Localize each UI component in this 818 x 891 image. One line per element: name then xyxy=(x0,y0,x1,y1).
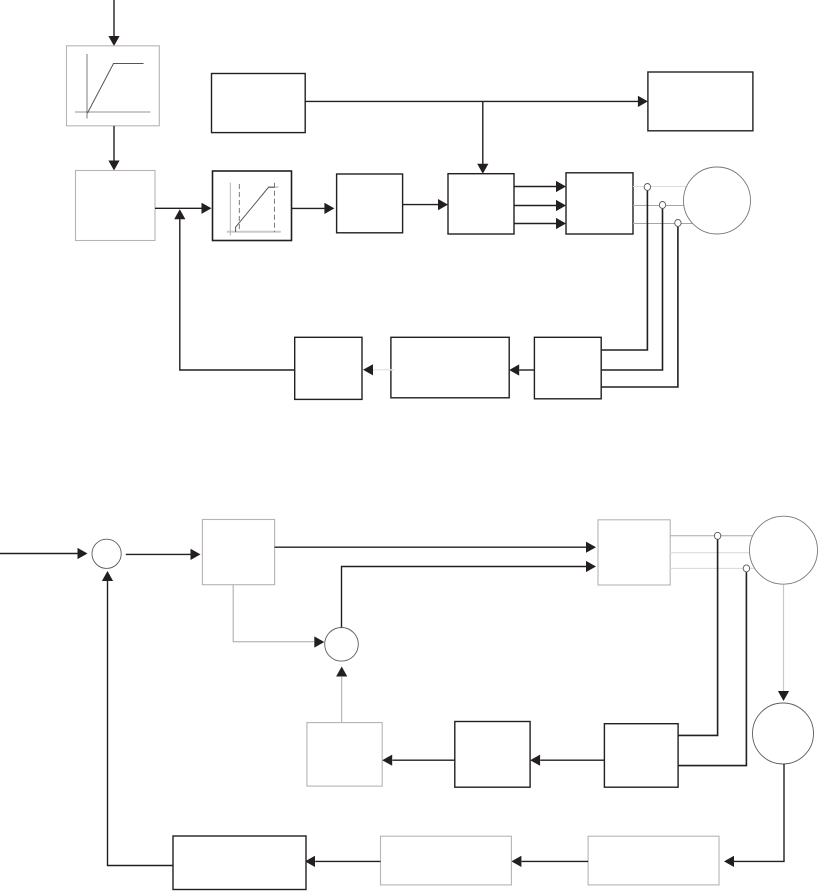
block: B16 (grey, bottom right) xyxy=(588,836,719,885)
wire: motor phase V xyxy=(633,205,684,207)
wire: B13 to B12 xyxy=(530,755,604,766)
wire: measurement to evaluation xyxy=(509,364,534,375)
wire: sense line from lead-1 terminal down to block B13 xyxy=(678,540,718,736)
wire: B15 to B14 xyxy=(305,856,381,867)
wire: current sense 1 down to measurement block xyxy=(601,191,647,350)
wire: B16 to B15 xyxy=(511,856,588,867)
wire: speed controller to current controller xyxy=(403,199,448,210)
wire: reference input arrow (bottom diagram) xyxy=(0,548,88,559)
block: compensation (grey, feeds S2) xyxy=(307,723,382,787)
wire: gate signal 3 xyxy=(514,218,566,229)
summing junction S1 xyxy=(92,539,121,568)
wire: current sense 3 down to measurement block xyxy=(601,227,678,387)
wire: compensation block up to S2 (grey with black head) xyxy=(336,667,347,723)
wire: S1 to controller xyxy=(126,549,201,560)
wire: B12 to compensation block xyxy=(382,755,455,766)
block: top-right auxiliary block xyxy=(648,72,753,131)
block: current controller / modulator xyxy=(448,174,514,234)
block: drive / power converter (bottom diagram) xyxy=(598,520,670,585)
wire: motor phase U xyxy=(633,186,687,188)
block: ramp limiter with saturation-curve icon xyxy=(67,46,160,126)
wire: feedback path up to summing junction on setpoint line xyxy=(174,209,295,370)
motor M1 xyxy=(684,167,751,234)
block: measurement B13 xyxy=(604,724,678,788)
wire: tachometer down and left to block B16 xyxy=(724,764,784,867)
block: evaluation (wide) xyxy=(391,337,509,398)
summing junction S2 xyxy=(325,628,359,662)
block: slope limiter with ramp icon xyxy=(213,171,292,241)
terminal node on phase U xyxy=(644,184,650,191)
terminal node on phase W xyxy=(675,220,681,227)
wire: main feedback from B14 up to summing junction S1 xyxy=(102,571,173,866)
wire: input arrow into ramp block xyxy=(108,0,119,46)
wire: evaluation to feedback block (grey with black head) xyxy=(363,364,394,375)
block: speed controller xyxy=(337,174,403,233)
wire: gate signal 1 xyxy=(514,181,566,192)
wire: slope limiter to speed controller block xyxy=(292,203,335,214)
wire: setpoint block to slope limiter xyxy=(155,203,212,214)
wire: motor lead 3 (bottom) xyxy=(670,567,755,569)
wire: motor phase W xyxy=(633,223,693,225)
wire: current sense 2 down to measurement block xyxy=(601,209,662,370)
wire: motor lead 2 (bottom) xyxy=(670,552,750,554)
block: controller (bottom diagram) xyxy=(202,520,274,585)
wire: supply to top-right block with branch to current controller xyxy=(305,96,648,174)
wire: sense line from lead-3 terminal down to block B13 xyxy=(678,572,746,766)
wire: controller output to drive block xyxy=(275,542,596,553)
block: power stage / inverter xyxy=(566,173,633,234)
wire: ramp block to setpoint block xyxy=(108,126,119,171)
terminal node on motor lead 3 xyxy=(743,565,749,572)
block: feedback conditioning xyxy=(295,337,362,399)
terminal node on phase V xyxy=(659,202,665,209)
block: setpoint processing xyxy=(76,171,156,241)
wire: motor lead 1 (bottom) xyxy=(670,535,753,537)
wire: motor shaft to tachometer (grey with black head) xyxy=(778,584,789,701)
tachometer / sensor circle xyxy=(753,703,814,764)
motor M2 (bottom diagram) xyxy=(750,516,818,584)
terminal node on motor lead 1 xyxy=(714,532,720,539)
block: measurement / sensing xyxy=(534,337,601,399)
wire: S2 output up and right to drive block xyxy=(342,561,597,628)
block: B14 (black, bottom left) xyxy=(173,836,306,890)
block: B15 (grey, bottom middle) xyxy=(381,836,512,885)
block: processing B12 xyxy=(455,722,530,788)
wire: controller lower output to summing junction S2 (grey) xyxy=(233,585,324,648)
wire: gate signal 2 xyxy=(514,200,566,211)
block: supply unit (top middle) xyxy=(212,74,306,133)
